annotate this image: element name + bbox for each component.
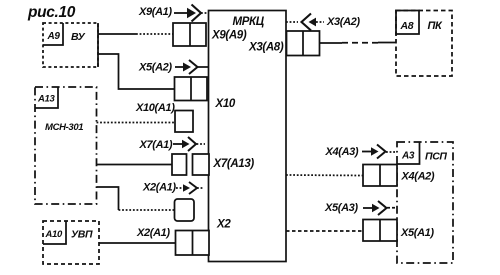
svg-text:ПК: ПК (428, 20, 444, 32)
sub-box A3 (397, 142, 420, 164)
arrow X5(A2) (175, 60, 208, 74)
connector X2 single (175, 199, 195, 221)
connector X5 pair (left of PSP) (363, 220, 397, 242)
block UVP (dashed outline) (43, 221, 99, 264)
svg-text:МРКЦ: МРКЦ (233, 16, 265, 28)
svg-text:Х9(А9): Х9(А9) (211, 30, 247, 42)
connector X5 pair (left) (175, 77, 208, 101)
svg-text:Х3(А2): Х3(А2) (326, 16, 360, 28)
arrow X4(A3) (362, 145, 397, 159)
wire MCH-301 to X2 single connector (97, 187, 175, 210)
svg-text:Х9(А1): Х9(А1) (138, 6, 172, 18)
svg-text:УВП: УВП (71, 229, 93, 241)
wire BU to X9 connector (98, 33, 173, 35)
block MCH-301 (dash-dot outline) (35, 87, 97, 204)
wire MRKC to X5 pair (dashed) (286, 230, 363, 232)
connector X4 pair (left of PSP) (363, 165, 397, 187)
arrow X2(A1) upper (dotted) (176, 182, 204, 194)
block PK (dashed outline) (396, 11, 452, 77)
wire UVP to X2 pair (99, 242, 176, 244)
block PSP (dash-dot outline) (397, 142, 453, 263)
svg-text:Х2(А1): Х2(А1) (142, 182, 176, 194)
svg-text:Х2(А1): Х2(А1) (136, 227, 170, 239)
svg-text:Х7(А1): Х7(А1) (139, 139, 173, 151)
svg-text:рис.10: рис.10 (27, 4, 76, 21)
svg-text:А13: А13 (37, 94, 55, 105)
sub-box A13 (35, 87, 58, 108)
svg-text:Х4(А3): Х4(А3) (325, 146, 359, 158)
svg-text:Х3(А8): Х3(А8) (248, 42, 284, 54)
wire MRKC to X4 pair (dotted) (286, 174, 363, 177)
connector X2 pair (176, 231, 210, 256)
connector X7 pair (172, 154, 209, 175)
arrow X7(A1) (173, 137, 205, 151)
svg-text:Х7(А13): Х7(А13) (213, 158, 255, 170)
svg-text:Х10: Х10 (215, 98, 236, 110)
svg-text:А9: А9 (47, 31, 61, 42)
svg-text:ВУ: ВУ (71, 31, 86, 43)
svg-text:Х10(А1): Х10(А1) (135, 102, 175, 114)
svg-text:А3: А3 (401, 151, 415, 162)
wire X3 pair to PK (320, 42, 397, 45)
sub-box A10 (43, 221, 66, 244)
block BU (dashed outline) (43, 23, 98, 67)
svg-text:МСН-301: МСН-301 (45, 122, 83, 133)
arrow X5(A3) (363, 201, 397, 215)
connector X10 single (175, 111, 193, 133)
block MRKC (central unit) (209, 11, 287, 262)
connector X9 pair (173, 23, 206, 46)
sub-box A9 (43, 23, 63, 45)
connector X3 pair (right of MRKC) (287, 31, 320, 56)
svg-text:Х5(А2): Х5(А2) (138, 62, 172, 74)
svg-text:Х4(А2): Х4(А2) (401, 171, 435, 183)
sub-box A8 (396, 11, 419, 35)
wire MCH-301 to X10 connector (dotted) (97, 122, 176, 124)
svg-text:А10: А10 (45, 229, 63, 240)
arrow X3(A2) pointing left (286, 14, 324, 31)
svg-text:Х5(А3): Х5(А3) (324, 202, 358, 214)
arrow X9(A1) (174, 5, 208, 22)
wire BU to X5 connector (98, 54, 175, 89)
svg-text:Х2: Х2 (216, 219, 231, 231)
svg-text:А8: А8 (400, 20, 414, 32)
svg-text:ПСП: ПСП (425, 151, 447, 163)
svg-text:Х5(А1): Х5(А1) (400, 227, 434, 239)
wire MCH-301 to X7 connector (97, 164, 173, 166)
